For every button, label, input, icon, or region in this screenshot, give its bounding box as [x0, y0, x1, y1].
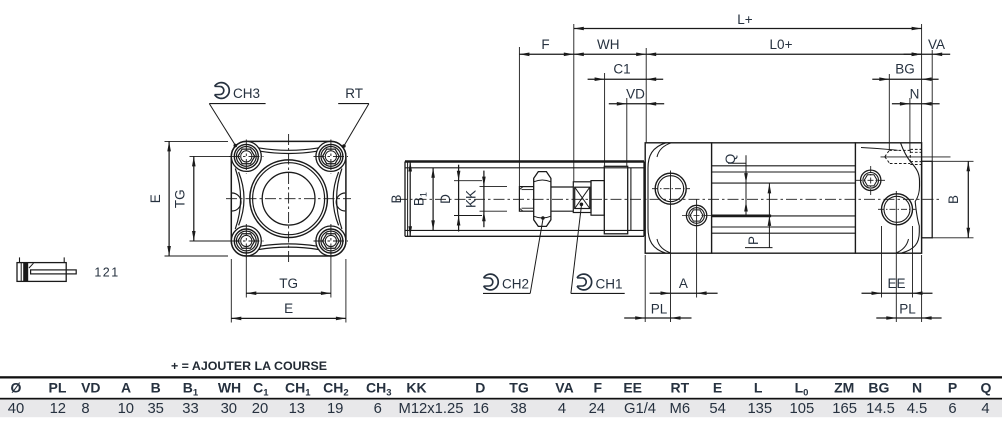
svg-text:Ø: Ø	[11, 379, 22, 395]
dimension C1	[588, 78, 664, 80]
dimension P	[745, 247, 773, 249]
svg-text:TG: TG	[173, 189, 188, 208]
front view bolts with hex sockets	[234, 144, 258, 168]
svg-text:D: D	[475, 379, 485, 395]
svg-text:CH2: CH2	[502, 276, 529, 291]
dimension EE	[862, 292, 933, 294]
rear mounting plate (edge view)	[922, 161, 933, 238]
dimension VD	[609, 103, 664, 105]
dimension L0+	[646, 53, 921, 55]
svg-text:Q: Q	[981, 379, 992, 395]
dimension WH	[574, 53, 646, 55]
svg-text:BG: BG	[895, 62, 915, 77]
main view left end cap	[645, 143, 711, 253]
front view cap web arcs	[258, 148, 319, 151]
svg-text:VA: VA	[555, 379, 573, 395]
dimension Q	[728, 162, 747, 164]
dimension BG	[872, 78, 938, 80]
right cap port hole	[882, 194, 913, 225]
svg-text:G1/4: G1/4	[624, 401, 656, 417]
label CH2 with wrench symbol and leader	[484, 274, 499, 290]
cushioning reference thick line	[712, 214, 772, 217]
svg-text:13: 13	[289, 401, 305, 417]
cylinder tube with tie rods	[712, 142, 856, 144]
dimension KK (rod-end view)	[480, 186, 508, 188]
svg-text:54: 54	[709, 401, 725, 417]
dimension B (rod-end view)	[409, 162, 411, 237]
dimension L+	[574, 28, 922, 30]
svg-text:B: B	[946, 195, 961, 204]
svg-text:4.5: 4.5	[907, 401, 928, 417]
svg-text:10: 10	[118, 401, 134, 417]
svg-text:L0+: L0+	[770, 37, 793, 52]
svg-text:E: E	[713, 379, 722, 395]
main view right end cap	[855, 143, 921, 253]
svg-text:PL: PL	[651, 301, 668, 316]
svg-text:WH: WH	[597, 37, 620, 52]
svg-text:BG: BG	[868, 379, 889, 395]
main view common centerline	[396, 198, 941, 200]
hidden tie-rod thread RT (dashed)	[881, 156, 951, 158]
svg-text:B: B	[151, 379, 161, 395]
dimension N	[892, 103, 940, 105]
dimension PL (left)	[624, 317, 691, 319]
svg-text:L: L	[754, 379, 763, 395]
svg-text:4: 4	[558, 401, 566, 417]
svg-text:P: P	[948, 379, 957, 395]
svg-text:24: 24	[589, 401, 605, 417]
extension lines (top dimensions)	[518, 47, 520, 186]
svg-text:A: A	[679, 276, 688, 291]
svg-text:C1: C1	[613, 62, 630, 77]
cylinder type icon 121	[17, 263, 66, 282]
svg-text:N: N	[910, 86, 920, 101]
svg-text:33: 33	[182, 401, 198, 417]
piston rod thread KK	[519, 187, 535, 212]
svg-text:12: 12	[50, 401, 66, 417]
table top rule	[0, 376, 1002, 378]
svg-text:135: 135	[747, 401, 772, 417]
svg-text:121: 121	[94, 266, 119, 280]
svg-text:E: E	[148, 194, 163, 203]
svg-text:105: 105	[790, 401, 815, 417]
svg-text:8: 8	[81, 401, 89, 417]
table header rule	[0, 398, 1002, 400]
front flange plate (edge view)	[604, 166, 627, 234]
svg-text:30: 30	[221, 401, 237, 417]
svg-text:B1: B1	[183, 379, 199, 398]
svg-text:VD: VD	[81, 379, 100, 395]
left cap port hole	[655, 173, 686, 204]
dimension B1 (rod-end view)	[432, 168, 434, 231]
bearing step	[591, 181, 604, 216]
svg-text:35: 35	[147, 401, 163, 417]
svg-text:20: 20	[252, 401, 268, 417]
svg-text:6: 6	[374, 401, 382, 417]
svg-text:RT: RT	[345, 86, 363, 101]
svg-text:CH3: CH3	[366, 379, 392, 398]
svg-text:6: 6	[948, 401, 956, 417]
front view centerlines	[288, 134, 290, 263]
svg-text:14.5: 14.5	[866, 401, 895, 417]
svg-text:F: F	[594, 379, 603, 395]
svg-text:L+: L+	[737, 12, 753, 27]
svg-text:L0: L0	[795, 379, 809, 398]
svg-text:+ = AJOUTER LA COURSE: + = AJOUTER LA COURSE	[171, 359, 327, 373]
front view side notches	[232, 193, 241, 211]
svg-text:TG: TG	[279, 276, 298, 291]
dimension D (rod-end view)	[454, 180, 482, 182]
svg-text:E: E	[284, 301, 293, 316]
svg-text:C1: C1	[253, 379, 269, 398]
svg-text:EE: EE	[887, 276, 905, 291]
rod section	[551, 186, 573, 188]
front view central bore circles	[250, 160, 328, 238]
svg-text:CH1: CH1	[285, 379, 311, 398]
svg-text:EE: EE	[623, 379, 642, 395]
dimension TG (left vertical)	[190, 155, 233, 157]
dimension VA	[904, 53, 951, 55]
rod-end view body rectangle	[405, 160, 644, 162]
extension lines (bottom dimensions)	[644, 255, 646, 322]
svg-text:4: 4	[981, 401, 989, 417]
svg-text:F: F	[541, 37, 549, 52]
front view flange plate outline	[231, 141, 346, 256]
svg-text:16: 16	[473, 401, 489, 417]
svg-text:N: N	[912, 379, 922, 395]
svg-text:PL: PL	[899, 301, 916, 316]
svg-text:19: 19	[327, 401, 343, 417]
svg-text:CH1: CH1	[596, 276, 623, 291]
svg-text:M6: M6	[670, 401, 691, 417]
rod nut CH2	[534, 172, 551, 227]
dimension E (left vertical)	[165, 140, 229, 142]
svg-text:M12x1.25: M12x1.25	[399, 401, 464, 417]
rod-end view inner B1 lines	[405, 167, 644, 169]
left cap screw	[686, 205, 706, 225]
label CH1 with wrench symbol and leader	[577, 274, 592, 290]
svg-text:CH2: CH2	[323, 379, 349, 398]
svg-text:CH3: CH3	[233, 86, 260, 101]
svg-text:VA: VA	[928, 37, 945, 52]
svg-text:165: 165	[832, 401, 857, 417]
dimension B (right side)	[932, 160, 973, 162]
svg-text:38: 38	[510, 401, 526, 417]
front view corner bolt lobes	[231, 141, 261, 171]
svg-text:A: A	[121, 379, 131, 395]
table value row background	[0, 400, 1002, 418]
right cap port centerline	[878, 208, 916, 210]
dimension A	[650, 292, 718, 294]
dimension PL (right)	[876, 317, 941, 319]
wrench flats CH1 square	[575, 187, 590, 208]
svg-text:40: 40	[8, 401, 24, 417]
left cap port centerline	[652, 188, 690, 190]
dimension F	[519, 53, 573, 55]
svg-text:P: P	[746, 236, 761, 245]
svg-text:TG: TG	[509, 379, 529, 395]
svg-text:ZM: ZM	[834, 379, 854, 395]
dimension TG (bottom horizontal)	[245, 252, 247, 298]
svg-text:WH: WH	[218, 379, 241, 395]
svg-text:KK: KK	[406, 379, 426, 395]
svg-text:RT: RT	[670, 379, 689, 395]
svg-text:VD: VD	[626, 86, 645, 101]
dimension E (bottom horizontal)	[230, 259, 232, 323]
right cap screw	[861, 170, 881, 190]
svg-text:PL: PL	[49, 379, 67, 395]
rod bearing boss	[573, 182, 591, 213]
label CH3 with wrench symbol and leader	[215, 83, 230, 99]
svg-text:Q: Q	[723, 154, 738, 165]
